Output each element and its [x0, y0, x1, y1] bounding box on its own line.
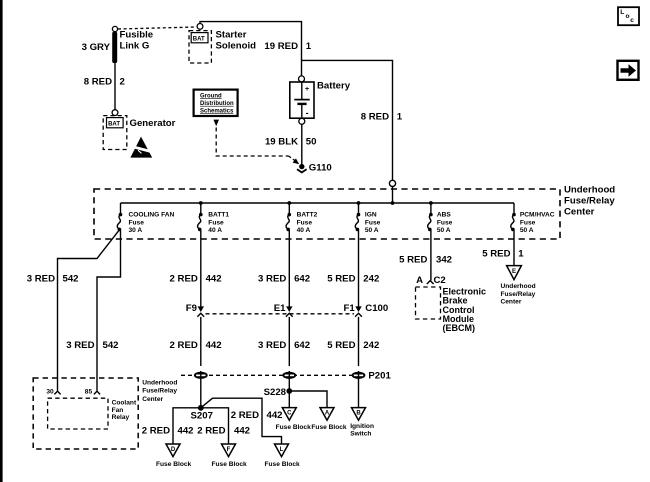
label 2 RED 442 (D) [142, 425, 194, 436]
wire P201 to S228 [288, 379, 290, 391]
svg-text:BATT1: BATT1 [208, 212, 229, 219]
node entry circle [389, 180, 395, 203]
svg-text:342: 342 [436, 255, 452, 266]
svg-text:Fuse/Relay: Fuse/Relay [142, 388, 177, 395]
label 3 RED 542 (upper) [27, 274, 79, 285]
svg-text:542: 542 [63, 274, 79, 285]
junction dots on bus [199, 201, 433, 205]
svg-text:Distribution: Distribution [200, 101, 234, 107]
wire S228 to fuse block C [288, 391, 290, 408]
triangle A fuse block [311, 408, 347, 431]
splice S207 [191, 405, 213, 422]
svg-text:Fuse: Fuse [437, 219, 453, 226]
label underhood fuse/relay center (at relay) [142, 380, 177, 403]
svg-text:+: + [305, 86, 309, 93]
wire starter solenoid to battery [200, 22, 302, 76]
label 8 RED 1 [361, 111, 403, 122]
svg-text:E: E [512, 269, 516, 275]
triangle F fuse block [212, 444, 248, 468]
svg-text:ABS: ABS [437, 212, 452, 219]
svg-text:C2: C2 [434, 275, 446, 286]
label 5 RED 342 [399, 255, 452, 266]
svg-text:642: 642 [294, 340, 310, 351]
svg-text:L: L [620, 9, 624, 16]
label 3 RED 542 (lower) [66, 340, 118, 351]
svg-text:3 RED: 3 RED [258, 340, 286, 351]
svg-text:642: 642 [294, 274, 310, 285]
svg-text:BATT2: BATT2 [297, 212, 318, 219]
electronic brake control module (EBCM) [416, 286, 487, 333]
svg-text:442: 442 [206, 340, 222, 351]
svg-text:2: 2 [120, 77, 125, 88]
svg-text:F: F [227, 447, 231, 453]
esd warning symbol [130, 137, 155, 158]
svg-text:Fuse Block: Fuse Block [212, 461, 248, 468]
svg-text:P201: P201 [368, 371, 391, 382]
svg-text:L: L [280, 447, 284, 453]
label 3 RED 642 (upper) [258, 274, 310, 285]
splice S228 [264, 387, 293, 398]
svg-text:Fuse Block: Fuse Block [265, 461, 301, 468]
svg-text:D: D [171, 447, 176, 453]
wire IGN fuse to F1 [358, 230, 360, 307]
wire cooling fan branch to relay pin 85 [97, 230, 121, 391]
wire cooling fan branch to relay pin 30 [58, 230, 120, 391]
svg-text:30: 30 [46, 389, 54, 396]
wire BATT2 fuse to E1 [288, 230, 290, 307]
svg-text:F9: F9 [186, 303, 197, 314]
svg-text:242: 242 [363, 340, 379, 351]
svg-text:A: A [325, 410, 330, 416]
connector F9 [186, 303, 204, 366]
svg-text:2 RED: 2 RED [197, 425, 225, 436]
fusible link G [112, 26, 153, 63]
wire PCM/HVAC fuse to E triangle [513, 230, 515, 266]
svg-text:Underhood: Underhood [142, 380, 177, 387]
svg-text:(EBCM): (EBCM) [443, 323, 476, 333]
svg-text:Fuse/Relay: Fuse/Relay [501, 291, 536, 298]
svg-text:C: C [287, 410, 292, 416]
svg-text:-: - [306, 108, 309, 118]
label 2 RED 442 (F) [197, 425, 250, 436]
dashed wire fusible link to starter solenoid [118, 27, 196, 29]
svg-text:Relay: Relay [112, 414, 130, 421]
coolant fan relay [33, 378, 138, 449]
wire ABS fuse to EBCM [430, 230, 432, 281]
svg-text:c: c [630, 17, 634, 24]
svg-text:Schematics: Schematics [200, 108, 234, 114]
svg-text:5 RED: 5 RED [482, 248, 510, 259]
svg-text:Fuse: Fuse [297, 219, 313, 226]
triangle B ignition switch [350, 408, 374, 438]
label 5 RED 1 [482, 248, 524, 259]
svg-text:Center: Center [142, 396, 163, 403]
svg-text:Ignition: Ignition [350, 423, 374, 430]
svg-text:G110: G110 [309, 162, 332, 173]
svg-text:1: 1 [397, 111, 403, 122]
svg-text:Fuse: Fuse [129, 219, 145, 226]
svg-text:Fuse: Fuse [365, 219, 381, 226]
svg-text:40 A: 40 A [208, 227, 222, 234]
fuse PCM/HVAC 50 A [511, 203, 555, 234]
svg-text:Fusible: Fusible [120, 30, 154, 41]
svg-text:Fuse: Fuse [520, 219, 536, 226]
svg-text:1: 1 [306, 41, 312, 52]
triangle D fuse block [156, 444, 192, 468]
svg-text:Fuse Block: Fuse Block [276, 424, 312, 431]
dashed connector line P201 [181, 374, 364, 376]
battery [290, 76, 351, 124]
connector P201 oval on BATT1 wire [194, 371, 208, 380]
label 3 RED 642 (lower) [258, 340, 310, 351]
fuse ABS 50 A [428, 203, 453, 234]
svg-text:50 A: 50 A [520, 227, 534, 234]
underhood fuse/relay center box [94, 184, 615, 239]
label 2 RED 442 (lower) [170, 340, 222, 351]
svg-text:F1: F1 [343, 303, 355, 314]
svg-text:BAT: BAT [193, 36, 205, 42]
svg-text:3 GRY: 3 GRY [82, 42, 111, 53]
next-page arrow icon [618, 61, 639, 80]
svg-text:442: 442 [178, 425, 194, 436]
svg-text:2 RED: 2 RED [170, 340, 198, 351]
svg-text:50 A: 50 A [365, 227, 379, 234]
svg-text:442: 442 [206, 274, 222, 285]
ground distribution schematics box [194, 90, 238, 127]
generator [103, 110, 175, 150]
fuse BATT2 40 A [286, 203, 318, 234]
connector F1 C100 [343, 303, 388, 366]
svg-text:Fuse/Relay: Fuse/Relay [564, 195, 615, 206]
svg-text:Center: Center [564, 206, 595, 217]
svg-text:50: 50 [306, 136, 317, 147]
loc icon [618, 7, 639, 25]
svg-text:COOLING FAN: COOLING FAN [129, 212, 175, 219]
svg-text:50 A: 50 A [437, 227, 451, 234]
bus wire [121, 202, 515, 204]
svg-text:Battery: Battery [317, 81, 351, 92]
label 8 RED 2 [84, 77, 125, 88]
left scan border [0, 0, 3, 482]
dashed reference line to G110 [216, 128, 299, 165]
label 5 RED 242 (upper) [327, 274, 379, 285]
wire S207 to fuse block F [201, 408, 229, 444]
svg-text:1: 1 [518, 248, 524, 259]
svg-text:442: 442 [234, 425, 250, 436]
svg-text:2 RED: 2 RED [142, 425, 170, 436]
svg-text:8 RED: 8 RED [361, 111, 389, 122]
svg-text:C100: C100 [365, 303, 388, 314]
svg-text:Fan: Fan [112, 407, 124, 414]
svg-text:Center: Center [501, 298, 522, 305]
wire battery to ground [301, 124, 303, 164]
svg-text:40 A: 40 A [297, 227, 311, 234]
svg-text:Underhood: Underhood [501, 283, 536, 290]
fuse BATT1 40 A [198, 203, 230, 234]
wire S207 to fuse block L [201, 398, 282, 444]
triangle C fuse block [276, 408, 312, 431]
svg-text:Ground: Ground [200, 93, 222, 99]
svg-text:5 RED: 5 RED [399, 255, 427, 266]
svg-text:Generator: Generator [130, 118, 176, 129]
wire battery branch to fuse center [302, 60, 393, 180]
svg-text:BAT: BAT [108, 121, 120, 127]
svg-text:Link G: Link G [120, 41, 150, 52]
starter solenoid [189, 24, 256, 64]
svg-text:S228: S228 [264, 387, 287, 398]
label 19 RED 1 [264, 41, 311, 52]
triangle L fuse block [265, 444, 301, 468]
svg-text:85: 85 [85, 389, 93, 396]
wire P201 to S207 [200, 379, 202, 408]
svg-text:PCM/HVAC: PCM/HVAC [520, 212, 555, 219]
svg-text:542: 542 [103, 340, 119, 351]
svg-text:Fuse Block: Fuse Block [311, 424, 347, 431]
connector A C2 [416, 275, 446, 286]
label 19 BLK 50 [265, 136, 317, 147]
svg-text:IGN: IGN [365, 212, 377, 219]
fuse IGN 50 A [355, 203, 380, 234]
svg-text:B: B [356, 410, 361, 416]
svg-text:19 RED: 19 RED [264, 41, 298, 52]
label 2 RED 442 (upper) [170, 274, 222, 285]
wire P201 to ignition switch [358, 379, 360, 408]
connector P201 oval on IGN wire [352, 371, 392, 382]
svg-text:Fuse Block: Fuse Block [156, 461, 192, 468]
svg-text:2 RED: 2 RED [231, 410, 259, 421]
svg-text:5 RED: 5 RED [327, 274, 355, 285]
svg-text:442: 442 [267, 410, 283, 421]
svg-text:Coolant: Coolant [112, 399, 137, 406]
svg-text:Switch: Switch [350, 431, 371, 438]
wire fusible link to generator [114, 63, 116, 110]
svg-text:30 A: 30 A [129, 227, 143, 234]
svg-text:o: o [626, 13, 630, 20]
ground G110 [297, 162, 332, 173]
svg-text:Fuse: Fuse [208, 219, 224, 226]
svg-text:8 RED: 8 RED [84, 77, 112, 88]
triangle E underhood fuse/relay center [501, 266, 536, 306]
connector P201 oval on BATT2 wire [282, 371, 296, 380]
svg-text:242: 242 [363, 274, 379, 285]
wire BATT1 fuse to F9 [200, 230, 202, 307]
dashed connector line F9-E1-F1 [206, 313, 355, 315]
svg-text:3 RED: 3 RED [27, 274, 55, 285]
wire S228 to fuse block A [289, 391, 327, 408]
svg-text:3 RED: 3 RED [258, 274, 286, 285]
label 5 RED 242 (lower) [327, 340, 379, 351]
svg-text:2 RED: 2 RED [170, 274, 198, 285]
svg-text:5 RED: 5 RED [327, 340, 355, 351]
label 2 RED 442 (L) [231, 410, 283, 421]
fuse COOLING FAN 30 A [117, 203, 174, 234]
connector E1 [274, 303, 293, 366]
svg-text:19 BLK: 19 BLK [265, 136, 298, 147]
svg-text:3 RED: 3 RED [66, 340, 94, 351]
svg-text:A: A [416, 275, 423, 286]
svg-text:Solenoid: Solenoid [216, 41, 257, 52]
wire S207 to fuse block D [173, 408, 201, 444]
svg-text:S207: S207 [191, 410, 213, 421]
svg-text:E1: E1 [274, 303, 286, 314]
svg-text:Underhood: Underhood [564, 184, 615, 195]
svg-text:Starter: Starter [216, 30, 247, 41]
